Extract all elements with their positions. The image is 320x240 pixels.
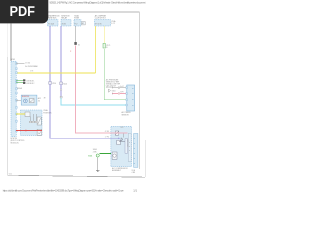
frame left border xyxy=(7,12,9,57)
wire yellow stub to fuse block xyxy=(16,113,25,115)
connector on purple 1 xyxy=(49,82,52,85)
note text block (right) xyxy=(106,79,120,90)
svg-text:X2 A: X2 A xyxy=(132,169,136,172)
compressor control module box xyxy=(111,126,132,172)
ground lead xyxy=(97,157,99,170)
connector X1 (between boxes) xyxy=(82,22,85,26)
wire right bus (x139) xyxy=(138,12,140,169)
svg-text:ASSEMBLY: ASSEMBLY xyxy=(112,169,122,172)
svg-text:9/26/23, 1:42 PM Fig 1: A/C Co: 9/26/23, 1:42 PM Fig 1: A/C Compressor W… xyxy=(50,2,146,5)
svg-text:87 30 85: 87 30 85 xyxy=(95,23,102,25)
svg-text:MODULE): MODULE) xyxy=(11,142,19,144)
svg-text:X4: X4 xyxy=(38,100,40,102)
wire purple 2 lower xyxy=(60,85,62,97)
A/C pressure transducer B2 xyxy=(122,85,135,116)
svg-text:RELAY: RELAY xyxy=(61,17,68,20)
svg-text:5 YE: 5 YE xyxy=(30,70,33,72)
svg-text:39: 39 xyxy=(44,97,46,99)
wire yellow L (feed to BCM) xyxy=(94,26,96,73)
svg-text:G10: G10 xyxy=(9,174,12,176)
wire red B+ feed xyxy=(16,130,42,132)
svg-text:1/1: 1/1 xyxy=(133,189,137,193)
svg-text:LIN BUS 1: LIN BUS 1 xyxy=(26,80,34,82)
svg-text:FUSE BLK: FUSE BLK xyxy=(48,18,57,20)
svg-text:CLUTCH RLY: CLUTCH RLY xyxy=(95,18,107,20)
svg-text:2 BK: 2 BK xyxy=(93,151,98,153)
wire green stub 1 xyxy=(16,79,23,81)
connector box C5 (top row) xyxy=(95,14,117,26)
wire purple 1 (x50) xyxy=(49,26,51,82)
wire gray to transducer xyxy=(112,87,127,89)
BCM header line + labels xyxy=(16,62,25,64)
svg-text:X1: X1 xyxy=(78,44,80,46)
svg-text:F4 10A: F4 10A xyxy=(48,22,54,25)
wire purple 2 (x61) xyxy=(60,26,62,82)
wire pink (x75.5) xyxy=(76,45,128,133)
wire green to compressor box xyxy=(100,152,111,154)
svg-text:LIN BUS 2: LIN BUS 2 xyxy=(26,83,34,85)
svg-text:F12: F12 xyxy=(75,23,78,25)
splice on purple 2 xyxy=(60,96,62,98)
svg-text:BCM: BCM xyxy=(11,59,15,61)
wire green vertical + elbow to transducer xyxy=(104,49,127,100)
wire purple 1 lower + elbow to relay box xyxy=(50,84,120,138)
svg-text:86 85: 86 85 xyxy=(62,23,66,25)
svg-text:https: obd identifix com Docu: https: obd identifix com Document PrintP… xyxy=(3,190,125,193)
PDF badge xyxy=(0,0,48,23)
svg-text:2: 2 xyxy=(70,51,71,53)
wire yellow 2 (x104) xyxy=(103,26,105,43)
frame top border xyxy=(8,11,140,13)
connector box C1 (top row) xyxy=(48,15,61,26)
svg-text:B: B xyxy=(106,47,108,49)
connector box C3 (top row) xyxy=(74,14,81,26)
splice arrow symbol xyxy=(109,89,111,92)
svg-text:4 BK: 4 BK xyxy=(132,172,136,174)
svg-text:B PK: B PK xyxy=(120,92,123,94)
arrowhead purple into module xyxy=(118,138,120,140)
ground symbol xyxy=(96,170,99,172)
connector box C2 (top row) xyxy=(61,15,71,26)
connector strip (right narrow box) xyxy=(132,134,138,175)
wire pink to transducer xyxy=(112,93,127,95)
svg-text:17 PU: 17 PU xyxy=(105,137,109,139)
ground component G304 xyxy=(88,149,99,157)
svg-text:B2: B2 xyxy=(82,23,84,25)
svg-text:M12: M12 xyxy=(121,127,124,129)
wire cyan elbow to transducer xyxy=(61,98,127,105)
svg-text:X110: X110 xyxy=(63,83,67,85)
svg-text:A GY: A GY xyxy=(120,85,124,88)
frame bottom border xyxy=(8,175,146,177)
svg-text:19 X4: 19 X4 xyxy=(25,63,29,65)
svg-text:3 C2: 3 C2 xyxy=(111,23,115,25)
wire gray stub into relay block xyxy=(16,99,21,101)
svg-text:G304: G304 xyxy=(88,155,92,157)
red arrowhead xyxy=(26,130,28,132)
svg-text:J-PLUG: J-PLUG xyxy=(106,87,113,89)
svg-text:FUSE BLK: FUSE BLK xyxy=(43,112,52,114)
BCM pin nubs xyxy=(16,63,18,132)
wire gray top (x75.5) xyxy=(75,26,77,42)
connector on purple 2 xyxy=(60,82,63,85)
connector on gray wire xyxy=(75,42,77,45)
relay block A xyxy=(21,95,41,105)
wire from top to BCM strip xyxy=(10,24,12,62)
frame right border xyxy=(144,140,146,177)
fuse block B xyxy=(21,109,53,135)
svg-text:RUN/CRK: RUN/CRK xyxy=(22,96,29,98)
svg-text:X110: X110 xyxy=(52,83,56,85)
splice tick on purple 2 xyxy=(60,89,62,90)
svg-text:S110: S110 xyxy=(112,90,116,92)
wire green stub 2 xyxy=(16,82,23,84)
svg-text:F8UA: F8UA xyxy=(17,87,22,90)
BCM module strip xyxy=(11,59,17,136)
connector C175 on yellow/green xyxy=(103,43,105,48)
svg-text:B+ RUN/CRANK: B+ RUN/CRANK xyxy=(25,65,38,68)
svg-text:FUSE: FUSE xyxy=(74,18,80,20)
svg-text:SENSOR: SENSOR xyxy=(122,114,130,116)
